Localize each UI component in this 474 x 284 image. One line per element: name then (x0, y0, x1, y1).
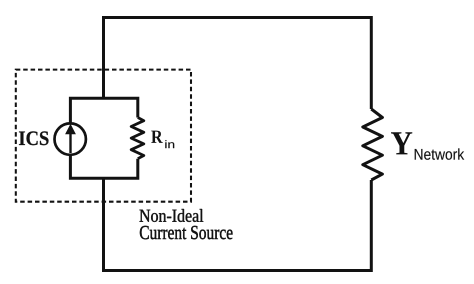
label Network subscript (415, 148, 464, 159)
label in subscript of Rin (165, 140, 174, 148)
resistor Y Network (363, 109, 383, 180)
wire top horizontal with left and right stems (104, 18, 372, 110)
label R of Rin (151, 131, 163, 143)
current source ICS circle (54, 123, 85, 154)
wire bottom horizontal with left and right stems (104, 178, 372, 270)
wire inner parallel top (70, 98, 137, 123)
label Y of Y Network (391, 132, 412, 154)
resistor Rin (131, 118, 144, 159)
current source ICS arrow (65, 124, 76, 153)
caption line 1: Non-Ideal (139, 209, 203, 222)
dashed box around non-ideal current source (16, 70, 191, 202)
caption line 2: Current Source (140, 226, 233, 239)
label ICS (current source designator) (19, 131, 49, 145)
wire inner parallel bottom (70, 156, 137, 179)
